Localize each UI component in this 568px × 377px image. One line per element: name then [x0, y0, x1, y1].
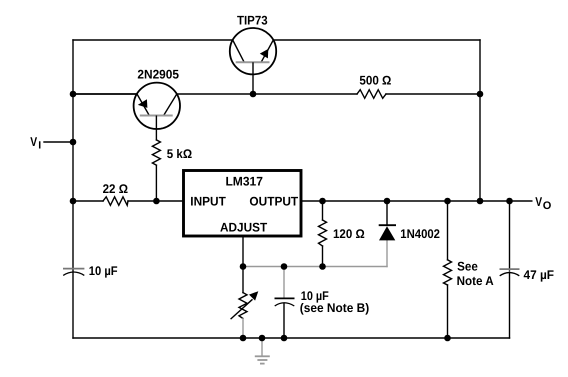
node bottom pot junction — [240, 335, 247, 342]
transistor Q2 2N2905 internals — [137, 94, 177, 129]
svg-text:120 Ω: 120 Ω — [333, 227, 365, 241]
ground symbol — [255, 356, 270, 363]
capacitor C2 10uF noteB plates — [275, 297, 295, 299]
node 500ohm right junction — [477, 91, 484, 98]
node adjust pin junction — [240, 263, 247, 270]
transistor Q2 2N2905 circle — [134, 83, 180, 129]
wire 120 ohm top lead — [322, 201, 324, 220]
wire bottom rail — [73, 337, 510, 339]
svg-text:(see Note B): (see Note B) — [300, 301, 369, 315]
wire left rail — [72, 40, 74, 338]
node TIP73 base junction — [250, 91, 257, 98]
capacitor C1 10uF left plates — [63, 268, 84, 270]
wire diode cathode lead down (gray) — [386, 240, 388, 266]
wire 120 ohm bottom lead — [322, 246, 324, 267]
transistor Q1 TIP73 internals — [233, 40, 274, 94]
node adjust cap junction — [281, 263, 288, 270]
potentiometer arrow — [231, 299, 253, 319]
svg-text:OUTPUT: OUTPUT — [249, 195, 298, 209]
svg-text:O: O — [543, 200, 552, 212]
LM317 box U1 — [184, 171, 302, 237]
svg-text:ADJUST: ADJUST — [220, 221, 267, 235]
wire second rail left segment — [73, 93, 357, 95]
node VI lead junction — [70, 139, 77, 146]
wire noteB cap top lead (gray) — [283, 267, 285, 298]
node output diode junction — [384, 198, 391, 205]
svg-text:47 µF: 47 µF — [524, 268, 555, 282]
svg-text:INPUT: INPUT — [190, 195, 226, 209]
transistor Q1 TIP73 emitter arrow — [260, 49, 269, 59]
wire adjust net horizontal (gray) — [243, 266, 387, 268]
resistor 22 ohm — [103, 197, 128, 206]
svg-text:V: V — [30, 134, 37, 149]
svg-text:I: I — [38, 140, 41, 152]
svg-text:Note A: Note A — [457, 274, 494, 288]
resistor 500 ohm — [357, 90, 386, 99]
node adjust 120ohm junction — [319, 263, 326, 270]
wire top rail — [73, 39, 480, 41]
wire 5k bottom lead — [155, 165, 157, 201]
resistor 120 ohm — [319, 220, 327, 246]
node input rail junction — [70, 198, 77, 205]
wire 47uF bottom lead — [509, 272, 511, 338]
svg-text:V: V — [535, 194, 542, 209]
potentiometer R adjust — [239, 293, 247, 319]
node output 120ohm junction — [319, 198, 326, 205]
wire 5k to input node — [155, 129, 157, 140]
wire ground stem (gray) — [261, 338, 263, 356]
wire second rail right segment — [386, 93, 480, 95]
resistor see note A — [444, 260, 452, 285]
transistor Q2 2N2905 emitter arrow — [138, 99, 148, 108]
svg-text:2N2905: 2N2905 — [137, 67, 179, 81]
wire input segment — [73, 200, 103, 202]
node 5k input junction — [153, 198, 160, 205]
diode D1 1N4002 cathode bar — [379, 224, 396, 226]
wire see-note-A bottom lead — [447, 285, 449, 338]
transistor Q1 TIP73 circle — [230, 28, 276, 74]
node output noteA junction — [444, 198, 451, 205]
wire VI lead — [44, 141, 73, 143]
wire pot bottom lead (gray) — [242, 319, 244, 339]
wire noteB cap bottom lead — [283, 303, 285, 338]
wire right upper rail — [479, 40, 481, 201]
node bottom noteA junction — [444, 335, 451, 342]
diode D1 1N4002 triangle — [379, 226, 395, 240]
wire 47uF top lead — [509, 201, 511, 270]
wire output rail — [302, 200, 532, 202]
resistor 5 kohm — [152, 140, 160, 165]
svg-text:TIP73: TIP73 — [237, 14, 268, 28]
svg-text:LM317: LM317 — [225, 174, 263, 188]
svg-text:500 Ω: 500 Ω — [359, 74, 391, 88]
node bottom ground junction — [259, 335, 266, 342]
node output 47uF junction — [506, 198, 513, 205]
wire LM317 adjust pin — [242, 237, 244, 267]
wire resistor to LM317 input — [128, 200, 183, 202]
svg-text:22 Ω: 22 Ω — [103, 182, 128, 196]
capacitor C3 47uF plates — [500, 268, 520, 270]
wire pot top lead — [242, 267, 244, 293]
node VI rail top junction — [70, 91, 77, 98]
svg-text:See: See — [457, 259, 478, 273]
wire 2N2905 left entry over circle — [73, 93, 137, 95]
svg-text:10 µF: 10 µF — [89, 264, 118, 278]
wire see-note-A top lead — [447, 201, 449, 260]
node output rail junction — [477, 198, 484, 205]
svg-text:1N4002: 1N4002 — [400, 227, 440, 241]
wire diode anode lead — [386, 201, 388, 225]
node bottom cap junction — [281, 335, 288, 342]
svg-text:5 kΩ: 5 kΩ — [167, 147, 192, 161]
